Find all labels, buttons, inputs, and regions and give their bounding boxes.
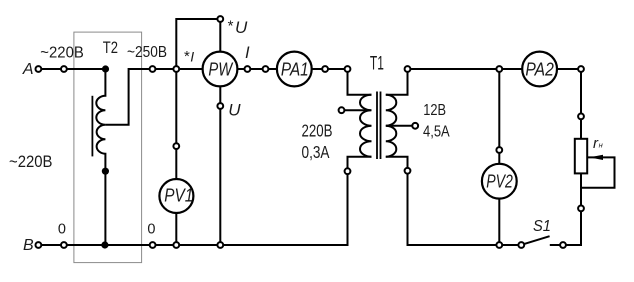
svg-text:220В: 220В (302, 121, 333, 141)
svg-text:~250В: ~250В (127, 44, 167, 61)
svg-text:*: * (228, 18, 234, 35)
svg-text:PA1: PA1 (281, 59, 309, 79)
svg-text:0,3А: 0,3А (302, 142, 330, 162)
svg-text:0: 0 (147, 222, 155, 238)
svg-text:В: В (23, 237, 34, 254)
svg-text:Т1: Т1 (370, 54, 384, 75)
svg-text:Т2: Т2 (103, 38, 118, 57)
svg-text:U: U (235, 18, 248, 37)
svg-text:PA2: PA2 (525, 59, 553, 79)
svg-text:PV1: PV1 (164, 186, 193, 206)
svg-text:S1: S1 (533, 218, 551, 235)
svg-text:U: U (228, 101, 241, 120)
svg-text:н: н (599, 141, 603, 150)
svg-text:I: I (190, 48, 194, 64)
svg-text:~220В: ~220В (9, 153, 53, 171)
svg-text:I: I (245, 44, 250, 62)
svg-text:PV2: PV2 (486, 171, 513, 191)
svg-text:PW: PW (208, 59, 233, 79)
svg-text:*: * (184, 48, 190, 65)
svg-text:А: А (22, 61, 34, 78)
svg-text:4,5А: 4,5А (423, 123, 450, 140)
svg-text:0: 0 (58, 222, 66, 238)
svg-text:~220В: ~220В (40, 45, 84, 62)
svg-text:12В: 12В (423, 102, 446, 119)
